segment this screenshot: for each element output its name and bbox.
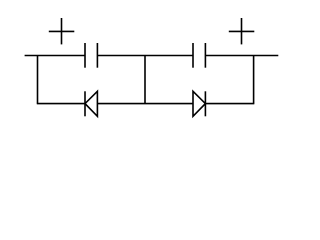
- wire bottom rail left segment: [37, 103, 85, 105]
- wire bottom rail middle segment: [97, 103, 193, 105]
- wire right vertical branch: [253, 56, 255, 104]
- plus polarity mark 2: [229, 18, 255, 44]
- plus polarity mark 1: [49, 18, 75, 44]
- wire top rail middle segment: [97, 55, 193, 57]
- capacitor C2: [193, 43, 205, 68]
- wire top rail right segment: [205, 55, 278, 57]
- wire bottom rail right segment: [205, 103, 254, 105]
- wire left vertical branch: [37, 56, 39, 104]
- wire top rail left segment: [25, 55, 85, 57]
- diode D2 (cathode right): [193, 91, 205, 116]
- diode D1 (cathode left): [85, 91, 97, 116]
- capacitor C1: [85, 43, 97, 68]
- wire middle vertical branch: [144, 56, 146, 104]
